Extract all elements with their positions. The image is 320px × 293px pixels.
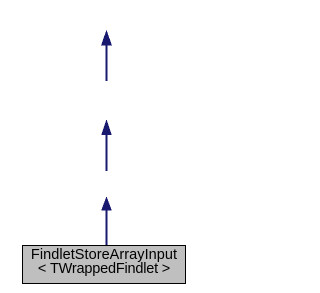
inheritance arrow 2 (middle) head [101, 119, 112, 135]
class node FindletStoreArrayInput< TWrappedFindlet > [22, 245, 186, 284]
inheritance arrow 3 (bottom) shaft [106, 210, 108, 246]
inheritance arrow 1 (top) shaft [106, 45, 108, 81]
inheritance arrow 3 (bottom) head [101, 196, 112, 210]
inheritance arrow 1 (top) head [101, 30, 112, 46]
inheritance arrow 2 (middle) shaft [106, 135, 108, 171]
